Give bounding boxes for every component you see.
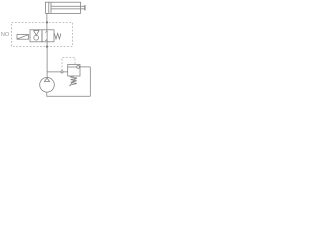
svg-text:NO: NO — [1, 32, 10, 38]
